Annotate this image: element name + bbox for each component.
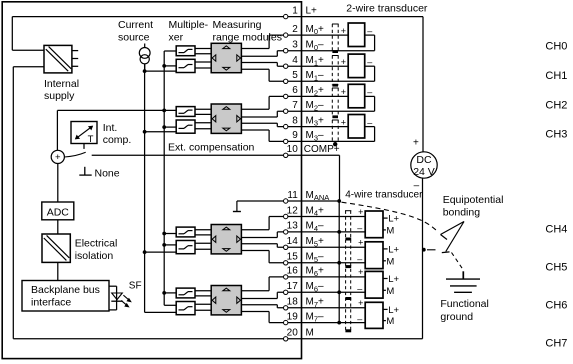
svg-text:4: 4 (292, 55, 298, 66)
svg-text:+: + (341, 117, 346, 127)
svg-text:18: 18 (287, 297, 299, 308)
svg-text:19: 19 (287, 311, 299, 322)
svg-text:+: + (341, 26, 346, 36)
svg-text:16: 16 (287, 266, 299, 277)
svg-text:range modules: range modules (213, 32, 282, 44)
svg-text:2: 2 (292, 24, 298, 35)
svg-text:+: + (341, 57, 346, 67)
svg-text:–: – (414, 180, 420, 191)
svg-text:Measuring: Measuring (213, 19, 262, 31)
svg-text:2-wire transducer: 2-wire transducer (346, 3, 428, 15)
svg-text:11: 11 (287, 190, 298, 201)
svg-text:Backplane bus: Backplane bus (31, 284, 100, 296)
svg-text:+: + (358, 207, 363, 217)
svg-text:+: + (358, 267, 363, 277)
svg-text:Equipotential: Equipotential (443, 194, 504, 206)
svg-text:–: – (367, 87, 372, 97)
svg-text:comp.: comp. (103, 134, 132, 146)
svg-text:L+: L+ (388, 305, 399, 316)
svg-text:Functional: Functional (440, 298, 488, 310)
svg-text:Int.: Int. (103, 122, 118, 134)
svg-text:isolation: isolation (75, 250, 114, 262)
svg-text:17: 17 (287, 281, 299, 292)
svg-text:12: 12 (287, 205, 299, 216)
svg-text:L+: L+ (306, 5, 318, 16)
svg-text:5: 5 (292, 70, 298, 81)
svg-text:supply: supply (44, 90, 75, 102)
svg-text:–: – (357, 284, 362, 294)
svg-text:14: 14 (287, 236, 299, 247)
svg-text:CH4: CH4 (545, 224, 567, 236)
svg-text:interface: interface (31, 296, 71, 308)
svg-text:SF: SF (129, 281, 142, 292)
svg-text:Current: Current (118, 19, 153, 31)
svg-text:L+: L+ (388, 274, 399, 285)
svg-text:M: M (386, 256, 394, 267)
svg-text:1: 1 (292, 5, 298, 16)
svg-text:4-wire transducer: 4-wire transducer (345, 189, 423, 200)
svg-text:+: + (358, 238, 363, 248)
svg-text:CH6: CH6 (545, 300, 567, 312)
svg-text:+: + (55, 152, 61, 163)
svg-text:–: – (367, 117, 372, 127)
svg-text:8: 8 (292, 115, 298, 126)
svg-text:DC: DC (416, 154, 432, 166)
svg-text:None: None (95, 168, 120, 180)
svg-text:L+: L+ (388, 214, 399, 225)
svg-text:M: M (386, 286, 394, 297)
svg-text:M: M (386, 225, 394, 236)
svg-text:24 V: 24 V (413, 166, 435, 178)
svg-text:15: 15 (287, 252, 299, 263)
svg-text:M: M (386, 316, 394, 327)
svg-text:6: 6 (292, 85, 298, 96)
svg-text:ground: ground (440, 311, 473, 323)
svg-text:M: M (306, 328, 314, 339)
svg-text:CH3: CH3 (545, 129, 567, 141)
svg-text:Multiple-: Multiple- (169, 19, 209, 31)
svg-text:L+: L+ (388, 244, 399, 255)
svg-text:T: T (88, 134, 94, 145)
svg-text:+: + (413, 138, 419, 149)
svg-text:bonding: bonding (443, 206, 481, 218)
svg-text:+: + (341, 87, 346, 97)
svg-text:+: + (358, 298, 363, 308)
svg-text:–: – (367, 26, 372, 36)
svg-text:CH0: CH0 (545, 40, 567, 52)
svg-text:–: – (357, 314, 362, 324)
svg-text:–: – (357, 254, 362, 264)
svg-text:–: – (367, 57, 372, 67)
svg-text:Electrical: Electrical (75, 237, 118, 249)
svg-text:–: – (357, 223, 362, 233)
svg-text:10: 10 (287, 144, 299, 155)
svg-text:CH5: CH5 (545, 262, 567, 274)
svg-text:7: 7 (292, 100, 298, 111)
svg-text:Internal: Internal (44, 78, 79, 90)
svg-text:xer: xer (169, 32, 184, 44)
svg-text:20: 20 (287, 328, 299, 339)
svg-text:CH7: CH7 (545, 338, 567, 350)
svg-text:ADC: ADC (47, 207, 70, 219)
svg-text:CH1: CH1 (545, 70, 567, 82)
svg-text:Ext. compensation: Ext. compensation (168, 142, 255, 154)
svg-text:3: 3 (292, 40, 298, 51)
svg-text:CH2: CH2 (545, 99, 567, 111)
svg-text:13: 13 (287, 221, 299, 232)
svg-text:9: 9 (292, 130, 298, 141)
svg-text:source: source (118, 32, 150, 44)
